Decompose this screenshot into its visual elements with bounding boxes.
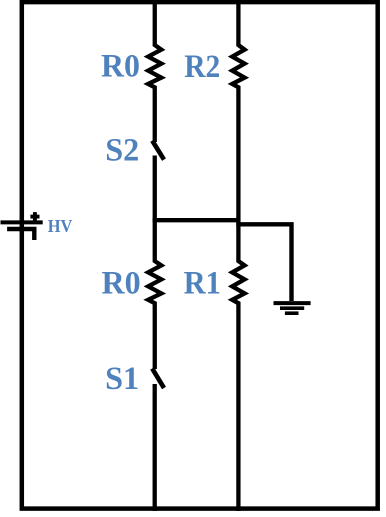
svg-text:R0: R0 xyxy=(101,48,140,84)
svg-text:R0: R0 xyxy=(102,265,141,301)
svg-text:HV: HV xyxy=(48,216,73,236)
svg-text:S1: S1 xyxy=(105,361,139,397)
svg-text:R1: R1 xyxy=(184,266,221,302)
svg-text:S2: S2 xyxy=(105,132,139,168)
svg-text:R2: R2 xyxy=(184,49,220,85)
